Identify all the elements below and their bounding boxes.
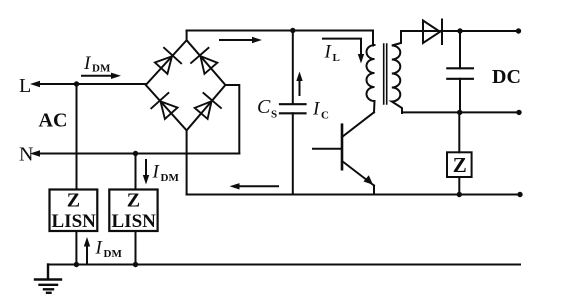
node output terminal top dot <box>516 28 521 33</box>
svg-text:I: I <box>152 162 161 183</box>
impedance Z box <box>447 152 472 177</box>
svg-text:L: L <box>19 75 31 97</box>
node junction dot Z rail <box>457 192 462 197</box>
svg-text:DM: DM <box>92 63 111 75</box>
wire LISN1 to ground rail <box>75 231 77 265</box>
arrow IC up <box>296 72 302 96</box>
diode D5 output <box>423 20 442 45</box>
diode D4 bottom-right <box>192 93 221 121</box>
svg-text:N: N <box>19 144 33 166</box>
svg-text:C: C <box>257 96 271 118</box>
arrow IDM down <box>143 160 149 185</box>
wire output cap branch lower <box>459 79 461 113</box>
arrow IDM right on L line <box>82 73 121 79</box>
capacitor Cs plates <box>280 104 306 113</box>
arrow on top rail right <box>220 37 262 43</box>
wire L line <box>39 83 146 85</box>
wire secondary top to diode <box>401 30 519 32</box>
diode D3 bottom-left <box>151 93 179 121</box>
transistor Q1 emitter <box>342 161 374 186</box>
transistor Q1 collector <box>342 112 374 137</box>
svg-text:DM: DM <box>104 248 123 260</box>
transformer core <box>384 44 387 104</box>
wire bridge bottom riser <box>186 130 188 194</box>
transformer secondary winding <box>392 31 402 113</box>
wire vertical from N to LISN2 <box>135 154 137 190</box>
wire top rail to transformer primary <box>187 31 373 46</box>
svg-text:DC: DC <box>492 66 521 88</box>
node L terminal arrowhead <box>30 81 40 87</box>
wire Z box to bottom rail <box>458 177 460 195</box>
node junction dot LISN2 ground <box>133 262 138 267</box>
node junction dot diode output <box>457 28 462 33</box>
svg-text:DM: DM <box>161 172 180 184</box>
svg-text:I: I <box>95 238 104 259</box>
LISN box 1 <box>50 190 98 232</box>
transistor Q1 base bar <box>341 125 344 170</box>
svg-text:C: C <box>321 110 329 122</box>
LISN box 2 <box>109 190 157 232</box>
transformer primary winding <box>367 45 375 112</box>
svg-text:S: S <box>271 109 277 121</box>
wire ground rail <box>48 264 520 266</box>
wire N riser to bridge right vertex <box>225 85 239 154</box>
ground symbol <box>35 265 61 293</box>
arrow IDM up <box>84 237 90 263</box>
node N terminal arrowhead <box>30 150 40 156</box>
svg-text:I: I <box>324 42 333 63</box>
arrow IL bent <box>323 39 364 64</box>
capacitor output plates <box>447 68 473 79</box>
wire Cs branch upper <box>292 31 294 105</box>
wire bridge top stub <box>186 31 188 41</box>
wire Cs branch lower <box>292 113 294 194</box>
wire vertical from L to LISN1 <box>76 84 78 190</box>
node junction dot Cs tap <box>290 28 295 33</box>
wire LISN2 to ground rail <box>135 231 137 265</box>
node output terminal bottom dot <box>516 110 521 115</box>
wire node to Z box <box>458 112 460 152</box>
wire output cap branch upper <box>459 31 461 68</box>
node bottom rail end dot <box>517 192 522 197</box>
wire secondary bottom rail <box>402 111 519 113</box>
wire N line <box>39 153 239 155</box>
svg-text:AC: AC <box>39 110 68 132</box>
svg-text:Z: Z <box>127 190 140 212</box>
svg-text:L: L <box>333 52 340 64</box>
diode D2 top-right <box>191 48 220 76</box>
diode D1 top-left <box>153 48 181 76</box>
node junction dot secondary bottom <box>457 110 462 115</box>
node junction dot on N line <box>133 151 138 156</box>
svg-text:LISN: LISN <box>112 211 157 232</box>
svg-text:LISN: LISN <box>52 211 97 232</box>
svg-text:Z: Z <box>453 153 467 177</box>
arrow return current left <box>230 183 279 189</box>
svg-text:I: I <box>312 99 321 120</box>
node junction dot LISN1 ground <box>74 262 79 267</box>
svg-text:Z: Z <box>67 190 80 212</box>
wire bottom rail <box>187 194 520 196</box>
bridge rectifier diamond <box>146 40 226 130</box>
node junction dot on L line <box>74 81 79 86</box>
transistor Q1 emitter arrowhead <box>364 175 374 185</box>
transistor Q1 base wire <box>313 148 342 150</box>
wire emitter to bottom rail <box>373 186 375 195</box>
svg-text:I: I <box>83 53 92 74</box>
